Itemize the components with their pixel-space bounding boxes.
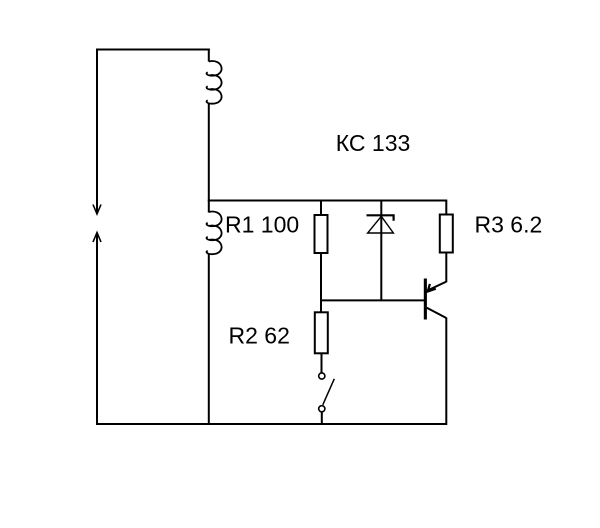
wire R2 bottom lead	[321, 353, 323, 373]
wire base rail	[321, 299, 425, 301]
wire collector vertical	[445, 318, 447, 426]
transistor VT1 emitter slant	[427, 282, 447, 291]
wire left vertical (upper)	[96, 49, 98, 214]
inductor L1 upper winding	[207, 61, 222, 104]
zener diode VD1 triangle	[368, 216, 394, 233]
resistor R1	[315, 215, 328, 253]
zener diode VD1 wire	[380, 201, 382, 301]
switch S1 bottom contact	[319, 406, 325, 412]
svg-text:R1 100: R1 100	[225, 212, 299, 238]
arrow down (input EMF)	[93, 205, 101, 215]
transistor VT1 emitter arrow	[428, 284, 436, 292]
resistor R2	[315, 312, 328, 353]
switch S1 lever	[323, 379, 335, 405]
wire top rail	[96, 49, 210, 51]
wire right vertical middle segment	[208, 103, 210, 213]
svg-text:КС 133: КС 133	[336, 130, 411, 156]
transistor VT1 collector slant	[427, 308, 447, 318]
wire middle rail	[208, 201, 446, 216]
inductor L2 lower winding	[207, 212, 222, 255]
wire bottom rail	[96, 423, 446, 425]
wire R1 bottom to base rail to R2	[320, 253, 322, 313]
arrow up (input EMF)	[93, 233, 101, 243]
resistor R3	[440, 215, 453, 253]
wire R1 top lead	[320, 201, 322, 216]
zener diode VD1 cathode bar	[367, 215, 394, 221]
switch S1 top contact	[319, 373, 325, 379]
wire switch bottom lead	[321, 412, 323, 425]
svg-text:R3 6.2: R3 6.2	[475, 211, 543, 237]
wire right vertical upper segment	[208, 49, 210, 62]
svg-text:R2 62: R2 62	[229, 323, 290, 349]
wire right vertical lower segment	[208, 254, 210, 426]
wire R3 bottom lead to emitter	[445, 253, 447, 283]
wire left vertical (lower)	[96, 233, 98, 425]
transistor VT1 base bar	[424, 279, 427, 320]
